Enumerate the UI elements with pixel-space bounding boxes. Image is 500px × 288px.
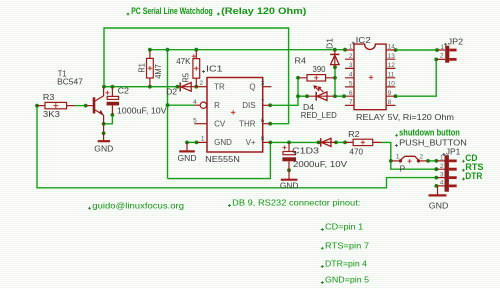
svg-text:RED_LED: RED_LED xyxy=(301,110,337,120)
op-amp timer IC1 NE555N box xyxy=(194,78,271,153)
svg-text:13: 13 xyxy=(388,53,396,60)
ground under transistor xyxy=(98,124,110,141)
svg-text:7: 7 xyxy=(349,99,353,106)
svg-text:R3: R3 xyxy=(43,92,55,102)
resistor R4 xyxy=(298,75,335,81)
svg-text:6: 6 xyxy=(349,90,353,97)
svg-text:390: 390 xyxy=(313,64,326,74)
wire top loop: collector to THR xyxy=(104,28,289,124)
svg-text:1: 1 xyxy=(396,153,400,160)
svg-text:TR: TR xyxy=(214,83,225,92)
svg-text:C2: C2 xyxy=(118,86,130,96)
ground under C1 xyxy=(281,170,298,180)
wire DTR long run xyxy=(37,106,436,188)
svg-text:2: 2 xyxy=(420,153,424,160)
svg-text:14: 14 xyxy=(388,44,396,51)
svg-text:JP2: JP2 xyxy=(448,36,464,46)
annotation green texts xyxy=(131,6,483,181)
svg-text:1000uF, 10V: 1000uF, 10V xyxy=(117,105,167,115)
svg-text:3K3: 3K3 xyxy=(43,109,60,119)
svg-text:8: 8 xyxy=(261,135,265,142)
svg-text:Q: Q xyxy=(249,83,255,92)
transistor Q1 T1 BC547 xyxy=(86,87,104,124)
svg-text:47K: 47K xyxy=(176,56,191,66)
svg-text:D1: D1 xyxy=(325,38,335,49)
wire JP2 pin1 xyxy=(396,49,438,51)
svg-text:THR: THR xyxy=(239,120,256,129)
diode D3 xyxy=(319,138,337,147)
svg-text:11: 11 xyxy=(388,72,395,79)
svg-text:NE555N: NE555N xyxy=(205,154,240,164)
wire bottom V+ run xyxy=(168,142,271,178)
wire D4 anode link xyxy=(298,95,307,97)
svg-text:DTR: DTR xyxy=(465,171,482,181)
svg-text:1: 1 xyxy=(440,155,444,162)
svg-text:1: 1 xyxy=(201,135,205,142)
svg-text:RELAY 5V, Ri=120 Ohm: RELAY 5V, Ri=120 Ohm xyxy=(356,112,454,122)
svg-text:PUSH_BUTTON: PUSH_BUTTON xyxy=(399,138,467,148)
svg-text:CV: CV xyxy=(214,120,226,129)
svg-text:R5: R5 xyxy=(180,73,190,83)
connector JP2 xyxy=(437,46,457,63)
svg-text:R4: R4 xyxy=(295,56,307,66)
svg-text:4: 4 xyxy=(193,99,197,106)
svg-text:shutdown button: shutdown button xyxy=(399,127,460,137)
wire JP2 pin2 to relay pin9 xyxy=(396,59,437,96)
diode D1 xyxy=(330,50,339,67)
svg-text:V+: V+ xyxy=(246,138,256,147)
ground under JP1 xyxy=(429,186,447,196)
svg-text:6: 6 xyxy=(261,118,265,125)
wire pullup rail y=49.7 xyxy=(150,49,345,51)
svg-text:7: 7 xyxy=(261,99,265,106)
resistor R2 xyxy=(345,139,381,145)
svg-text:IC2: IC2 xyxy=(356,35,372,45)
svg-text:GND: GND xyxy=(280,180,299,190)
wire IC1 gnd link xyxy=(187,141,197,143)
component name/value texts xyxy=(43,35,467,211)
svg-text:4: 4 xyxy=(349,72,353,79)
relay IC2 box with notch xyxy=(345,44,395,110)
svg-text:GND: GND xyxy=(429,201,449,211)
svg-text:D2: D2 xyxy=(166,87,177,97)
svg-text:CD=pin 1: CD=pin 1 xyxy=(325,222,363,232)
connector JP1 xyxy=(437,155,457,192)
resistor R3 xyxy=(37,102,75,108)
svg-text:IC1: IC1 xyxy=(206,64,223,74)
capacitor C1 xyxy=(282,142,296,170)
wire V+ row to D3 xyxy=(270,141,318,143)
svg-text:PC Serial Line Watchdog: PC Serial Line Watchdog xyxy=(131,6,213,16)
svg-text:1: 1 xyxy=(440,44,444,51)
svg-text:R1: R1 xyxy=(137,63,147,73)
svg-text:3: 3 xyxy=(440,171,444,178)
svg-text:DTR=pin 4: DTR=pin 4 xyxy=(325,259,367,269)
svg-text:JP1: JP1 xyxy=(446,147,461,157)
svg-text:4M7: 4M7 xyxy=(153,64,163,79)
wire D3 to R2 xyxy=(336,141,345,143)
pin numbers xyxy=(193,44,444,187)
wire DIS net vertical x=298 xyxy=(270,78,298,106)
svg-text:2000uF, 10V: 2000uF, 10V xyxy=(293,159,347,169)
text origin tick marks xyxy=(88,13,465,285)
LED D4 RED_LED xyxy=(307,85,335,101)
svg-text:3: 3 xyxy=(349,62,353,69)
diode D2 xyxy=(177,82,196,91)
svg-text:5: 5 xyxy=(193,118,197,125)
svg-text:4: 4 xyxy=(440,180,444,187)
svg-text:2: 2 xyxy=(349,53,353,60)
svg-text:P: P xyxy=(400,164,406,174)
wire D4 cathode link xyxy=(335,95,344,97)
svg-text:2: 2 xyxy=(199,80,203,87)
svg-text:GND=pin 5: GND=pin 5 xyxy=(325,275,369,285)
svg-text:470: 470 xyxy=(350,147,364,157)
svg-text:GND: GND xyxy=(94,143,113,153)
wire D1 anode vertical xyxy=(334,67,336,96)
wire button to JP1 pin1 xyxy=(427,160,437,162)
wire reset pin feed xyxy=(168,104,195,106)
wire R2 to push button and RTS xyxy=(381,142,436,169)
svg-text:DB 9, RS232 connector pinout:: DB 9, RS232 connector pinout: xyxy=(232,198,360,208)
wire TR net horizontal xyxy=(104,86,177,88)
svg-text:10: 10 xyxy=(388,81,396,88)
svg-text:12: 12 xyxy=(388,62,396,69)
resistor R5 xyxy=(192,50,200,87)
svg-text:2: 2 xyxy=(440,163,444,170)
svg-text:5: 5 xyxy=(349,81,353,88)
svg-text:1: 1 xyxy=(349,44,353,51)
wire emitter / C2 bottom xyxy=(104,115,113,124)
svg-text:guido@linuxfocus.org: guido@linuxfocus.org xyxy=(92,200,184,210)
svg-text:R2: R2 xyxy=(348,129,360,139)
svg-text:(Relay 120 Ohm): (Relay 120 Ohm) xyxy=(221,6,306,16)
svg-text:DIS: DIS xyxy=(242,101,255,110)
capacitor C2 xyxy=(106,87,120,115)
ground under IC1 pin1 xyxy=(179,142,195,151)
svg-text:R: R xyxy=(214,101,220,110)
svg-text:GND: GND xyxy=(214,138,232,147)
svg-text:C1D3: C1D3 xyxy=(292,146,319,156)
svg-text:RTS=pin 7: RTS=pin 7 xyxy=(325,240,369,250)
svg-text:BC547: BC547 xyxy=(57,77,83,87)
IC1 inner pin labels xyxy=(214,83,256,148)
svg-text:2: 2 xyxy=(440,53,444,60)
svg-text:3: 3 xyxy=(261,80,265,87)
wire vertical x=167.5 V+ riser xyxy=(167,50,169,179)
resistor R1 xyxy=(147,50,154,87)
svg-text:8: 8 xyxy=(388,99,392,106)
svg-text:GND: GND xyxy=(178,153,197,163)
push button S1 xyxy=(391,156,428,163)
svg-text:9: 9 xyxy=(388,90,392,97)
wire base link xyxy=(75,105,86,107)
